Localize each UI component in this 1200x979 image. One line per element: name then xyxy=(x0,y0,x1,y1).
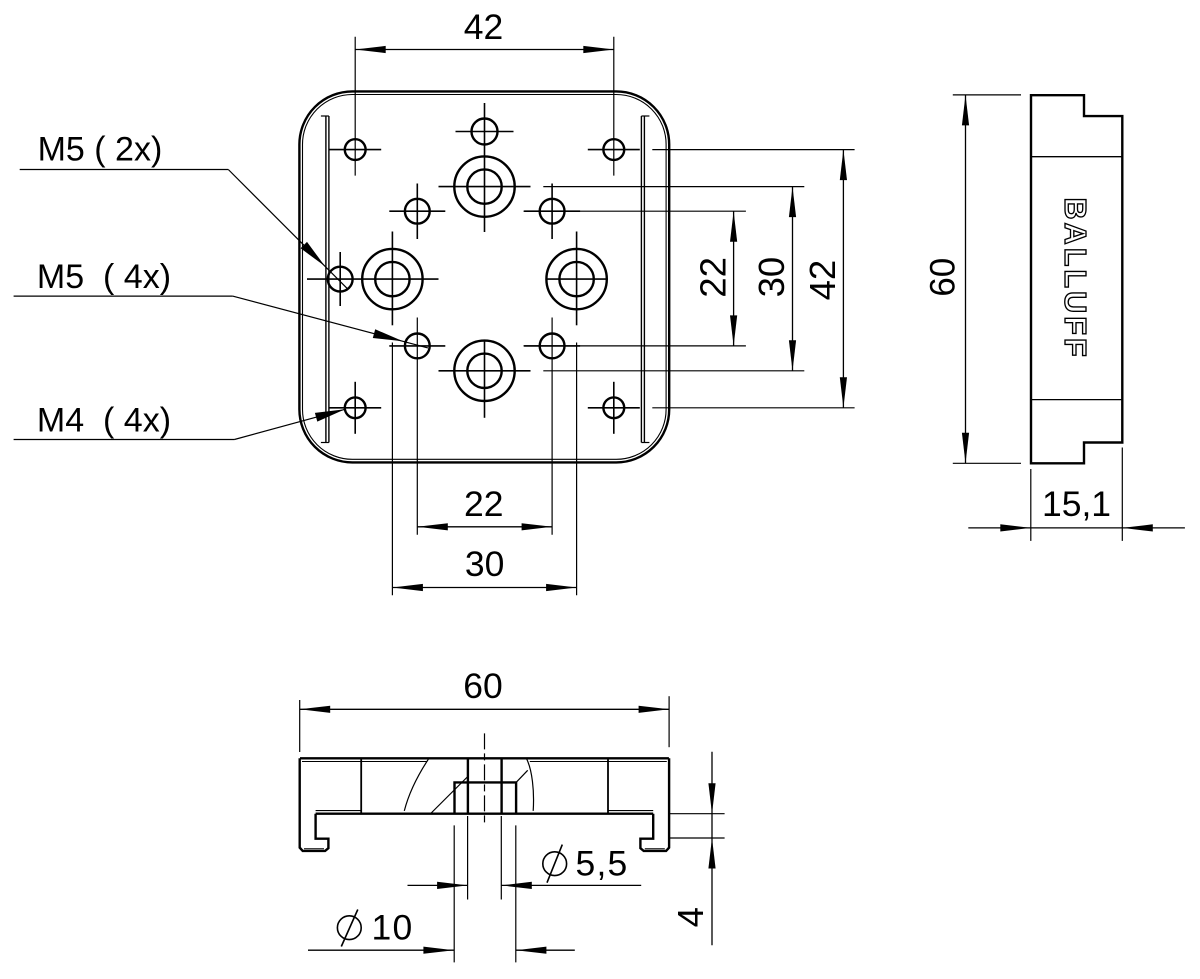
svg-text:22: 22 xyxy=(692,257,733,298)
dimension 60 bottom view xyxy=(299,700,301,752)
dimension diameter 10 extension lines xyxy=(453,825,455,962)
column line through left counterbored holes xyxy=(391,232,393,326)
section: bottom thin line left xyxy=(316,810,362,812)
front view: plate inner edge outline xyxy=(303,95,667,460)
diameter symbol 5,5 xyxy=(543,852,567,876)
section: top inner thin line right xyxy=(530,761,667,763)
section: counterbore wall right xyxy=(500,758,502,813)
svg-text:5,5: 5,5 xyxy=(576,844,629,884)
vertical center line column xyxy=(484,103,486,232)
dimension 22 right xyxy=(733,211,735,346)
svg-text:30: 30 xyxy=(751,257,792,298)
column line through right counterbored holes xyxy=(576,232,578,326)
side view: profile outline xyxy=(1031,95,1122,463)
M4 hole top-left xyxy=(345,139,366,160)
row line big hole bottom extension xyxy=(543,370,804,372)
M5 (4x) hole bottom-left xyxy=(405,334,430,359)
side view: lower face line xyxy=(1031,399,1122,401)
dimension 15,1 side view xyxy=(1030,469,1032,541)
counterbored hole right inner xyxy=(559,262,593,296)
M4 hole top-right xyxy=(603,139,624,160)
svg-text:42: 42 xyxy=(802,260,843,301)
svg-text:10: 10 xyxy=(372,908,414,948)
row line corner holes top xyxy=(652,149,854,151)
svg-text:15,1: 15,1 xyxy=(1042,484,1111,524)
row line corner holes bottom xyxy=(652,407,854,409)
counterbored hole bottom-center outer xyxy=(454,341,514,401)
svg-text:60: 60 xyxy=(924,258,963,297)
leader M5 (4x) xyxy=(14,295,233,297)
front view: left groove slot xyxy=(325,116,327,443)
section: division line left xyxy=(360,758,362,813)
dimension 4 extension lines xyxy=(668,813,725,815)
horizontal center line row xyxy=(307,278,439,280)
section: slope line far left xyxy=(404,759,428,811)
row line big hole top extension xyxy=(543,186,804,188)
counterbored hole right outer xyxy=(546,249,606,309)
section: top edge xyxy=(300,757,669,759)
front view: right groove slot xyxy=(640,116,642,443)
dimension 42 top xyxy=(355,49,614,51)
dimension 30 right xyxy=(792,187,794,371)
section: right wall and foot hook xyxy=(640,758,669,851)
M5 (2x) hole top-center xyxy=(472,119,498,145)
section: slope curve right xyxy=(527,759,534,811)
svg-text:60: 60 xyxy=(463,666,503,706)
M5 (2x) hole left-edge half xyxy=(328,267,353,292)
M4 hole bottom-left xyxy=(345,397,366,418)
counterbored hole left outer xyxy=(362,249,422,309)
section: counterbore wall left xyxy=(467,758,469,813)
section: left wall and foot hook xyxy=(300,758,329,851)
section: top inner thin line left xyxy=(302,761,428,763)
dimension 22 bottom xyxy=(417,526,552,528)
column line left small holes xyxy=(416,184,418,240)
top corner holes vertical extension lines xyxy=(354,37,356,176)
crosshair big hole top-center xyxy=(439,186,531,188)
dimension 4 xyxy=(711,752,713,946)
section: bottom surface xyxy=(316,813,654,815)
dimension 42 right xyxy=(842,150,844,408)
counterbored hole top-center inner xyxy=(467,169,501,203)
column line right small holes xyxy=(551,184,553,240)
section: division line right xyxy=(607,758,609,813)
M4 hole bottom-right xyxy=(603,397,624,418)
svg-text:4: 4 xyxy=(670,907,711,927)
M5 (4x) hole bottom-right xyxy=(540,334,565,359)
section: slope line right short xyxy=(516,770,528,782)
svg-text:M4 ( 4x): M4 ( 4x) xyxy=(37,401,171,439)
svg-text:30: 30 xyxy=(465,544,505,584)
counterbored hole left inner xyxy=(375,262,409,296)
dimension diameter 10 xyxy=(308,949,454,951)
row line small holes bottom extension xyxy=(524,345,746,347)
diameter symbol 10 xyxy=(337,916,361,940)
M5 (4x) hole top-right xyxy=(540,199,565,224)
dimension diameter 5,5 xyxy=(408,884,468,886)
svg-text:M5 ( 4x): M5 ( 4x) xyxy=(37,258,171,296)
section: center line xyxy=(484,733,486,824)
leader M4 (4x) xyxy=(14,439,235,441)
row line small holes top extension xyxy=(524,210,746,212)
side view: upper face line xyxy=(1031,156,1122,158)
svg-text:22: 22 xyxy=(464,484,504,524)
section: bottom thin line right xyxy=(608,810,653,812)
dimension diameter 5,5 extension lines xyxy=(467,816,469,900)
M5 (4x) hole top-left xyxy=(405,199,430,224)
dimension 60 side view xyxy=(953,94,1021,96)
front view: plate outer outline xyxy=(299,91,669,462)
svg-text:M5 ( 2x): M5 ( 2x) xyxy=(38,130,163,168)
dimension 30 bottom xyxy=(392,587,576,589)
crosshair big hole bottom-center xyxy=(439,370,531,372)
counterbored hole top-center outer xyxy=(454,156,514,216)
counterbored hole bottom-center inner xyxy=(467,354,501,388)
svg-text:BALLUFF: BALLUFF xyxy=(1058,197,1092,359)
svg-text:42: 42 xyxy=(464,7,504,47)
section: center boss xyxy=(455,782,517,813)
section: slope line left xyxy=(431,777,467,813)
leader M5 (2x) xyxy=(20,169,229,171)
